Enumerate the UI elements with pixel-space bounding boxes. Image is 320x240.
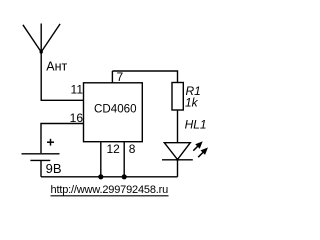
battery 9V plus sign	[47, 139, 54, 146]
bottom rail wire	[41, 176, 178, 178]
pin 7 stub	[111, 71, 113, 83]
svg-text:8: 8	[129, 142, 136, 156]
junction pin 12 / rail	[98, 174, 103, 179]
svg-text:1k: 1k	[185, 96, 199, 110]
junction pin 8 / rail	[122, 174, 127, 179]
wire pin 7 to R1	[112, 71, 177, 83]
svg-text:7: 7	[117, 70, 124, 84]
svg-text:12: 12	[107, 142, 121, 156]
svg-text:11: 11	[71, 83, 84, 97]
svg-text:9В: 9В	[46, 161, 62, 176]
pin 12 wire	[100, 142, 102, 177]
IC CD4060 body	[84, 83, 143, 142]
wire antenna to pin 11	[41, 52, 83, 100]
LED HL1	[162, 143, 207, 161]
wire R1 to LED	[177, 110, 179, 143]
wire battery minus to bottom rail	[40, 160, 42, 176]
svg-text:CD4060: CD4060	[94, 102, 137, 115]
resistor R1	[172, 83, 183, 111]
wire LED to bottom rail	[177, 160, 179, 177]
wire pin 16 to battery plus	[41, 124, 84, 154]
pin 8 wire	[123, 142, 125, 177]
svg-text:http://www.299792458.ru: http://www.299792458.ru	[51, 184, 169, 196]
svg-text:16: 16	[70, 111, 84, 125]
antenna Ант	[23, 24, 60, 54]
svg-text:Ант: Ант	[46, 60, 67, 74]
URL caption	[51, 184, 169, 196]
battery 9V negative plate	[30, 159, 50, 161]
svg-text:HL1: HL1	[185, 118, 207, 132]
battery 9V positive plate	[22, 153, 60, 155]
